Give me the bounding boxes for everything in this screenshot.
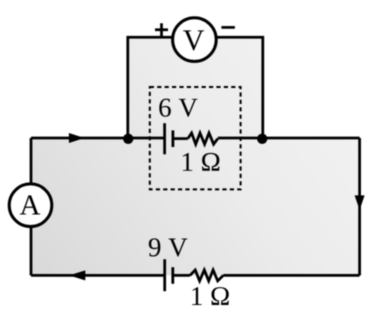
resistor 1 ohm (internal resistance of 9V cell) xyxy=(190,270,223,281)
wire: bottom segment (cell to resistor) xyxy=(173,274,190,277)
wire: middle horizontal segment (cell to resistor) xyxy=(173,137,188,140)
battery cell 9V: long plate xyxy=(163,259,166,291)
wire: bottom right segment (resistor to right corner) xyxy=(223,274,359,277)
node junction dot (right) xyxy=(257,134,267,144)
voltmeter V (circle) xyxy=(173,18,217,62)
wire: left vertical through ammeter xyxy=(30,138,33,275)
wire: middle horizontal right segment (resistor to right side) xyxy=(218,137,360,140)
label 9 V xyxy=(149,238,188,256)
ammeter A (circle) xyxy=(9,184,52,227)
wire: middle horizontal left segment (node A to 6V cell) xyxy=(31,137,165,140)
current arrow (left) on bottom wire xyxy=(69,270,85,280)
circuit interior shading (T-shaped enclosed region) xyxy=(31,37,360,275)
polarity label minus xyxy=(221,26,235,29)
label 1 ohm (top) xyxy=(183,153,220,171)
current arrow (right) on middle wire xyxy=(69,133,85,143)
label 6 V xyxy=(159,99,197,117)
wire: top loop (left vertical, top horizontal, right vertical) xyxy=(128,37,263,139)
wire: right vertical xyxy=(358,138,361,275)
wire: bottom left segment (to 9V cell) xyxy=(31,274,165,277)
battery cell 6V: long plate xyxy=(163,123,166,154)
resistor 1 ohm (internal resistance of 6V cell) xyxy=(188,133,218,144)
voltmeter letter V xyxy=(183,30,204,50)
battery cell 6V: short plate xyxy=(171,130,174,147)
node junction dot (left) xyxy=(123,134,133,144)
battery cell 9V: short plate xyxy=(171,267,174,284)
ammeter letter A xyxy=(20,195,40,214)
dashed boundary box around 6V cell xyxy=(150,87,241,189)
label 1 ohm (bottom) xyxy=(192,287,229,305)
polarity label plus xyxy=(155,23,168,36)
current arrow (down) on right wire xyxy=(355,195,365,210)
